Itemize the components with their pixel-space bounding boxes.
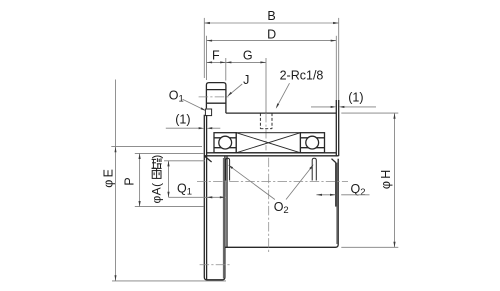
dimension (1) left — [166, 127, 199, 129]
extension line B right — [338, 18, 340, 100]
mount hole centerline — [200, 264, 231, 266]
label P — [123, 177, 137, 185]
body right face outer — [338, 100, 340, 156]
Rc1/8 port centerline — [265, 113, 267, 150]
right wall chamfer — [332, 159, 336, 163]
right bearing outer box — [300, 133, 324, 153]
dimension D line — [207, 40, 337, 42]
svg-text:F: F — [212, 48, 220, 62]
housing bottom line 2 — [204, 155, 338, 157]
dimension phiH line — [394, 113, 396, 247]
body right face inner — [335, 100, 337, 156]
svg-text:φH: φH — [379, 168, 393, 190]
O-ring O1 square — [205, 109, 211, 116]
leader O2 right — [286, 166, 313, 200]
dimension P line — [139, 153, 141, 206]
extension line B left — [203, 18, 205, 78]
Rc1/8 port hidden bottom — [260, 128, 272, 130]
dimension B line — [204, 22, 338, 24]
extension line D right — [335, 36, 337, 100]
extension phiE bottom — [112, 280, 226, 282]
label phiE — [102, 167, 116, 188]
svg-text:D: D — [267, 28, 276, 42]
leader 2-Rc1/8 — [277, 83, 290, 107]
svg-text:B: B — [267, 9, 275, 23]
extension line FG middle — [225, 58, 227, 81]
right bearing ball — [306, 136, 319, 149]
svg-text:φA(: φA( — [149, 183, 163, 204]
svg-text:): ) — [149, 155, 163, 159]
extension line D left — [206, 36, 208, 80]
dimension G line — [226, 61, 266, 63]
svg-text:2-Rc1/8: 2-Rc1/8 — [280, 68, 324, 82]
svg-text:G: G — [243, 48, 253, 62]
leader O2 left — [229, 166, 275, 200]
svg-text:P: P — [123, 177, 137, 185]
cavity bottom — [225, 159, 338, 248]
extension line G right / port axis — [265, 58, 267, 113]
spacer diagonal 1 — [236, 133, 300, 153]
extension phiH top — [341, 112, 398, 114]
svg-text:(1): (1) — [348, 90, 363, 104]
leader O1 — [183, 99, 205, 110]
O-ring O2 left tab — [226, 158, 230, 180]
extension phiH bottom — [341, 246, 398, 248]
plate right companion line — [222, 158, 224, 279]
housing bottom line 1 — [207, 152, 337, 154]
spacer diagonal 2 — [236, 133, 300, 153]
extension P bottom — [135, 206, 204, 208]
extension phiE top — [111, 146, 202, 148]
J boss outline — [206, 83, 226, 114]
dimension phiA line — [168, 161, 170, 198]
cavity left wall — [226, 156, 228, 247]
dimension (1) right — [311, 106, 331, 108]
extension phiA top — [164, 160, 205, 162]
Rc1/8 port hidden right wall — [271, 113, 273, 129]
dimension Q1 line — [169, 196, 226, 198]
dimension phiE line — [115, 80, 117, 281]
svg-text:(1): (1) — [175, 112, 190, 126]
svg-text:J: J — [243, 73, 249, 87]
dimension Q2 line — [316, 194, 335, 196]
left bearing race lines — [214, 137, 236, 139]
svg-text:φE: φE — [102, 167, 116, 188]
main horizontal centerline — [197, 180, 348, 182]
plate top chamfer — [205, 156, 212, 162]
right bearing race lines — [300, 137, 324, 139]
label phiH — [379, 168, 393, 190]
J boss lower joint line — [206, 102, 226, 104]
plate inner left line — [206, 115, 208, 280]
cavity right inner line — [335, 163, 337, 207]
cavity centerline — [268, 158, 270, 253]
J boss inner line — [206, 89, 226, 91]
label phiA(both ends) — [149, 183, 163, 204]
dimension F line — [207, 61, 226, 63]
J boss centerline — [199, 96, 230, 98]
leader J — [228, 84, 242, 96]
O-ring O2 right tab — [312, 158, 316, 180]
body top face — [226, 112, 336, 114]
plate outer left face — [204, 115, 225, 280]
spacer box — [236, 133, 300, 153]
left bearing outer box — [214, 133, 236, 153]
left bearing ball — [219, 136, 232, 149]
Rc1/8 port hidden left wall — [259, 113, 261, 129]
extension P top — [135, 152, 204, 154]
